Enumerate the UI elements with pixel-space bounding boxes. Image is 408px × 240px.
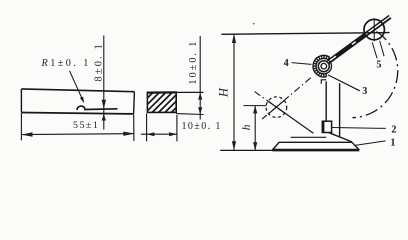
extension line bottom right (176, 113, 203, 116)
leader line R1 (70, 71, 83, 100)
hatching (147, 93, 176, 113)
vertical dimension 10±0.1 line (199, 36, 201, 120)
dimension 55±1 extension lines (20, 113, 22, 140)
bottom dimension 10±0.1 line with arrows (141, 133, 177, 135)
dimension 8±0.1 line (103, 36, 105, 130)
leaders to 5 (372, 42, 377, 58)
dimension 55±1 line with arrows (21, 134, 134, 135)
dimension h extension line (244, 105, 267, 107)
svg-text:3: 3 (362, 86, 367, 97)
leader to 1 (355, 141, 386, 146)
raised pendulum centerline (dash-dot) (262, 78, 311, 119)
dimension H line (233, 34, 235, 150)
base slab (272, 142, 359, 150)
cross centerline through raised hammer (dash-dot) (255, 92, 283, 112)
hammer vertical centerline (373, 18, 375, 41)
svg-text:10±0. 1: 10±0. 1 (188, 40, 199, 85)
pointer / leader to 3 (328, 75, 360, 91)
extension line top right (176, 91, 203, 93)
svg-text:R1±0. 1: R1±0. 1 (41, 58, 91, 69)
section square (147, 93, 176, 113)
leader to 2 (332, 127, 386, 130)
top reference line (221, 33, 389, 35)
frame column (325, 81, 327, 121)
specimen bar outline (21, 89, 134, 114)
section square top edge (thick) (147, 91, 177, 93)
svg-text:55±1: 55±1 (73, 120, 99, 131)
svg-text:H: H (217, 87, 231, 98)
svg-text:h: h (241, 124, 253, 130)
svg-text:8±0. 1: 8±0. 1 (94, 42, 105, 81)
pendulum rod (double line) (329, 18, 391, 63)
leader to 4 (292, 63, 312, 65)
brace (329, 133, 352, 142)
raised hammer (dashed circle) (266, 97, 287, 118)
notch root extension line with R1 bump (77, 106, 117, 110)
noise dot (253, 23, 255, 25)
hammer disc (364, 19, 384, 39)
anvil foot (322, 121, 331, 132)
svg-text:1: 1 (390, 137, 395, 148)
ground reference line (220, 149, 272, 151)
svg-text:5: 5 (376, 60, 381, 71)
svg-text:10±0. 1: 10±0. 1 (182, 121, 222, 132)
dimension h line (254, 106, 256, 151)
dial serrated arc with tick marks (313, 55, 330, 77)
dial: scale ring (316, 58, 331, 73)
swing arc (dash-dot) (353, 32, 398, 118)
bed line (291, 136, 327, 138)
svg-text:2: 2 (391, 124, 396, 135)
svg-text:4: 4 (284, 58, 289, 69)
bottom dimension extension lines (146, 113, 148, 141)
